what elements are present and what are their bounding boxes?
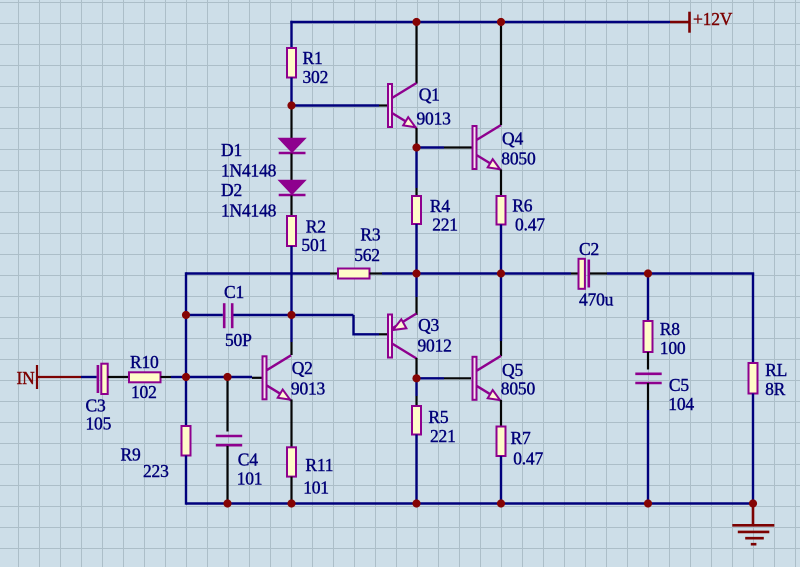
- svg-text:RL: RL: [765, 360, 787, 380]
- junction node B: [287, 311, 295, 319]
- svg-text:8R: 8R: [765, 379, 786, 399]
- wire RL to ground node: [752, 394, 754, 504]
- wire R3 node to Q5 collector: [500, 274, 502, 342]
- pin Q5 emitter to R7: [500, 400, 502, 427]
- svg-text:R1: R1: [303, 48, 323, 68]
- svg-text:R10: R10: [130, 352, 159, 372]
- pin Q5 collector: [500, 341, 502, 356]
- wire VCC to R1: [290, 21, 292, 48]
- wire R11 to ground rail: [290, 477, 292, 504]
- pin Q2 base: [252, 377, 262, 379]
- junction R5-gnd: [412, 499, 420, 507]
- svg-text:0.47: 0.47: [513, 449, 543, 469]
- junction feedback node: [182, 311, 190, 319]
- pin Q3 emitter: [415, 297, 417, 315]
- svg-text:221: 221: [430, 426, 456, 446]
- pin node A to D1: [290, 106, 292, 139]
- svg-text:D2: D2: [221, 180, 242, 200]
- svg-text:Q1: Q1: [419, 85, 440, 105]
- wire node B to Q2 collector: [290, 315, 292, 342]
- resistor R11: [287, 447, 296, 476]
- svg-text:D1: D1: [221, 140, 242, 160]
- wire R3 node to Q3 emitter: [415, 274, 417, 298]
- wire node C to Q4 base: [417, 146, 445, 148]
- resistor R4: [412, 196, 421, 224]
- pin Q5 base: [444, 377, 471, 379]
- pin C2 right: [590, 272, 607, 274]
- svg-text:8050: 8050: [501, 149, 536, 169]
- transistor Q5: [473, 356, 502, 401]
- wire R7 to ground rail: [500, 456, 502, 504]
- pin D2 to R2: [290, 196, 292, 217]
- transistor Q3: [388, 314, 417, 359]
- power +12V: [670, 9, 733, 33]
- resistor R8: [644, 321, 653, 352]
- capacitor C1: [224, 303, 232, 328]
- resistor R2: [287, 216, 296, 246]
- pin C3 to R10: [108, 376, 129, 378]
- svg-text:R3: R3: [360, 225, 380, 245]
- svg-text:R11: R11: [305, 455, 333, 475]
- wire R6 to R3 node: [500, 225, 502, 274]
- wire VCC to Q4 collector: [500, 22, 502, 125]
- pin R4 top: [415, 188, 417, 196]
- wire C4 node to Q2 base: [228, 376, 253, 378]
- wire C1 right: [234, 314, 292, 316]
- junction VCC-Q4: [497, 18, 505, 26]
- pin C4 to ground rail: [226, 446, 228, 504]
- wire node A to Q1 base: [292, 104, 380, 106]
- svg-text:R2: R2: [306, 217, 326, 237]
- svg-text:IN: IN: [17, 368, 36, 388]
- svg-text:C2: C2: [579, 239, 599, 259]
- svg-text:101: 101: [303, 477, 329, 497]
- svg-text:Q5: Q5: [502, 360, 523, 380]
- ground: [732, 505, 774, 544]
- svg-text:R7: R7: [511, 428, 531, 448]
- transistor Q4: [473, 125, 502, 170]
- junction node D: [412, 374, 420, 382]
- wire output node to RL: [752, 274, 754, 364]
- wire output node to R8: [647, 274, 649, 322]
- junction output node: [644, 269, 652, 277]
- wire Q4 emitter to R6: [500, 170, 502, 197]
- capacitor C3: [98, 364, 108, 394]
- wire R5 to ground rail: [415, 435, 417, 505]
- svg-text:470u: 470u: [579, 290, 614, 310]
- transistor Q2: [263, 355, 292, 400]
- wire R3 to C2: [382, 272, 571, 274]
- junction R11-gnd: [287, 499, 295, 507]
- pin Q2 emitter to R11: [290, 400, 292, 448]
- wire VCC to Q1 collector: [415, 22, 417, 84]
- svg-text:C3: C3: [86, 396, 106, 416]
- svg-text:1N4148: 1N4148: [221, 200, 277, 220]
- svg-text:R6: R6: [512, 195, 532, 215]
- junction ground node: [749, 499, 757, 507]
- svg-text:Q3: Q3: [418, 315, 439, 335]
- junction VCC-Q1: [412, 18, 420, 26]
- svg-text:C5: C5: [669, 375, 689, 395]
- svg-text:100: 100: [660, 338, 686, 358]
- svg-text:9012: 9012: [418, 335, 452, 355]
- wire step down: [352, 315, 354, 336]
- junction input node: [182, 373, 190, 381]
- wire IN to C3: [81, 376, 97, 378]
- svg-text:R8: R8: [660, 319, 680, 339]
- wire input node to C4 node: [186, 376, 228, 378]
- wire VCC top rail: [290, 21, 670, 23]
- junction C5-gnd: [644, 499, 652, 507]
- pin R3 right: [370, 272, 383, 274]
- pin C2 left: [571, 272, 579, 274]
- junction R7-gnd: [497, 499, 505, 507]
- junction R6 node: [497, 269, 505, 277]
- wire node C to R4: [415, 148, 417, 189]
- wire C5 to ground rail: [647, 410, 649, 504]
- svg-text:R5: R5: [428, 407, 448, 427]
- svg-text:+12V: +12V: [693, 9, 733, 29]
- junction C4-gnd: [223, 499, 231, 507]
- svg-text:221: 221: [432, 214, 458, 234]
- wire R1 to node A: [290, 78, 292, 106]
- pin R5 top: [415, 396, 417, 406]
- wire C1 left: [186, 314, 223, 316]
- wire ground rail: [186, 502, 753, 504]
- svg-text:Q2: Q2: [292, 358, 313, 378]
- wire R4 to R3 node: [415, 224, 417, 274]
- pin C5 bottom: [647, 383, 649, 410]
- svg-text:Q4: Q4: [502, 129, 523, 149]
- resistor R5: [412, 406, 421, 435]
- svg-text:50P: 50P: [225, 330, 252, 350]
- resistor R1: [287, 48, 296, 78]
- wire node D to R5: [415, 378, 417, 396]
- svg-text:101: 101: [237, 468, 263, 488]
- wire R2 to node B: [290, 246, 292, 315]
- resistor R3: [338, 269, 370, 279]
- pin D1 to D2: [290, 154, 292, 181]
- pin Q1 base: [379, 104, 388, 106]
- svg-text:302: 302: [303, 67, 329, 87]
- pin R10 right: [161, 376, 172, 378]
- wire step to Q3 base: [354, 333, 380, 335]
- pin Q2 collector: [290, 342, 292, 355]
- svg-text:R4: R4: [430, 196, 450, 216]
- junction R3-R4 node: [412, 269, 420, 277]
- svg-text:501: 501: [301, 235, 327, 255]
- wire feedback top: [185, 272, 187, 426]
- wire R3 left: [186, 272, 330, 274]
- pin Q4 base: [444, 146, 472, 148]
- junction node A: [287, 101, 295, 109]
- wire C2 to output node: [607, 272, 754, 274]
- transistor Q1: [388, 83, 417, 128]
- svg-text:1N4148: 1N4148: [221, 160, 277, 180]
- resistor R6: [497, 196, 506, 225]
- svg-text:9013: 9013: [291, 379, 326, 399]
- diode D1: [279, 139, 306, 154]
- wire node D to Q5 base: [417, 377, 445, 379]
- svg-text:R9: R9: [121, 445, 141, 465]
- svg-text:562: 562: [354, 245, 380, 265]
- svg-text:C4: C4: [238, 449, 258, 469]
- junction C4 node: [223, 373, 231, 381]
- wire Q3 collector to node D: [415, 358, 417, 378]
- resistor R7: [497, 427, 506, 457]
- pin R3 left: [330, 272, 338, 274]
- pin C4 top: [226, 377, 228, 432]
- pin R8 to C5: [647, 352, 649, 370]
- svg-text:104: 104: [668, 394, 694, 414]
- svg-text:8050: 8050: [501, 379, 536, 399]
- svg-text:0.47: 0.47: [515, 214, 545, 234]
- capacitor C5: [635, 374, 661, 383]
- capacitor C4: [216, 436, 242, 445]
- diode D2: [279, 181, 306, 196]
- pin Q3 base: [379, 333, 388, 335]
- wire Q1 emitter to node C: [415, 128, 417, 148]
- wire R9 to ground rail: [185, 456, 187, 505]
- port IN: [17, 365, 82, 389]
- resistor R9: [182, 426, 191, 456]
- svg-text:105: 105: [86, 414, 112, 434]
- svg-text:C1: C1: [224, 282, 244, 302]
- svg-text:9013: 9013: [417, 109, 452, 129]
- resistor R10: [129, 372, 161, 382]
- junction node C: [412, 143, 420, 151]
- svg-text:223: 223: [143, 461, 169, 481]
- resistor RL: [749, 363, 758, 394]
- wire R10 to input node: [171, 376, 186, 378]
- capacitor C2: [579, 259, 589, 289]
- wire node B to step: [292, 314, 354, 316]
- svg-text:102: 102: [131, 382, 157, 402]
